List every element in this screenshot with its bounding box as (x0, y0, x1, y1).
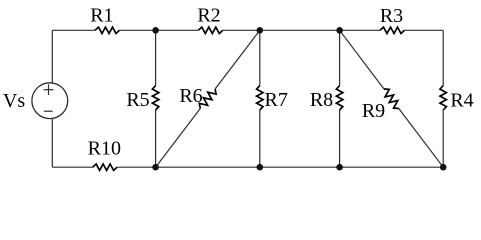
node bottom D (R5/R6/R10) (152, 164, 159, 171)
resistor R1 (90, 4, 119, 33)
svg-text:R6: R6 (179, 85, 202, 107)
wire bottom horizontal from R10 to right corner (117, 166, 443, 168)
wire bottom left horizontal (52, 166, 92, 168)
wire R9 diagonal upper segment (340, 30, 384, 89)
svg-text:R3: R3 (380, 5, 403, 27)
resistor R6 (179, 85, 216, 109)
resistor R8 (310, 86, 343, 112)
wire top between R2 and R3 (223, 29, 380, 31)
wire R7 column upper (259, 30, 261, 85)
voltage source Vs (3, 83, 68, 119)
wire R8 column upper (339, 30, 341, 85)
svg-text:R10: R10 (88, 138, 121, 160)
svg-text:R1: R1 (90, 4, 113, 26)
node top C (R3/R8/R9) (336, 27, 343, 34)
wire R6 diagonal upper segment (215, 30, 260, 89)
svg-text:R4: R4 (450, 90, 473, 112)
node bottom E (R7) (257, 164, 264, 171)
resistor R5 (126, 86, 158, 112)
resistor R7 (257, 86, 288, 111)
node top B (R2/R6/R7) (257, 27, 264, 34)
wire left vertical lower (51, 118, 53, 167)
resistor R4 (440, 86, 474, 112)
svg-text:Vs: Vs (3, 90, 25, 112)
resistor R2 (197, 4, 222, 33)
svg-text:R2: R2 (197, 4, 220, 26)
resistor R9 (362, 89, 399, 122)
wire R9 diagonal lower segment (399, 109, 443, 168)
wire R5 column lower (155, 110, 157, 167)
node bottom G (R4/R9) (440, 164, 447, 171)
resistor R3 (380, 5, 405, 34)
wire R6 diagonal lower segment (156, 109, 201, 168)
wire left vertical upper (51, 30, 53, 83)
wire top left horizontal (52, 29, 95, 31)
svg-text:R5: R5 (126, 89, 149, 111)
svg-text:R7: R7 (265, 89, 288, 111)
wire right vertical lower (442, 110, 444, 167)
svg-text:R8: R8 (310, 89, 333, 111)
wire R5 column upper (155, 30, 157, 85)
resistor R10 (88, 138, 121, 171)
wire right vertical upper (442, 30, 444, 85)
wire top right horizontal (405, 29, 444, 31)
wire R7 column lower (259, 110, 261, 167)
wire top between R1 and R2 (120, 29, 199, 31)
svg-text:R9: R9 (362, 100, 385, 122)
node top A (R1/R2/R5) (152, 27, 159, 34)
node bottom F (R8) (336, 164, 343, 171)
wire R8 column lower (339, 110, 341, 167)
